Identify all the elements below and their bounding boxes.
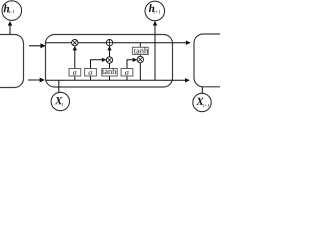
wire multiplier 3 output down to h line bbox=[139, 63, 141, 81]
LSTM cell (center rounded box) bbox=[46, 35, 173, 88]
node X_t+1 bbox=[193, 93, 211, 111]
gate sigma3 (output gate box) bbox=[121, 69, 133, 77]
wire sigma3 input down to h line bbox=[126, 76, 128, 80]
wire X_t riser into cell bbox=[58, 80, 60, 92]
wire output tanh box down into multiplier 3 bbox=[139, 55, 141, 57]
node h_t-1 bbox=[2, 1, 22, 21]
multiplier 3 (output gate product) bbox=[137, 56, 143, 62]
output tanh box (on C branch) bbox=[132, 47, 148, 54]
gate sigma2 (input gate box) bbox=[85, 69, 97, 77]
next cell (right rounded box) bbox=[194, 34, 254, 87]
wire C entry arrow (prev cell to cell left edge) bbox=[29, 45, 45, 47]
wire h riser up to h_t+1 circle bbox=[154, 21, 156, 80]
multiplier 2 (input gate product) bbox=[106, 57, 112, 63]
gate tanh (candidate box) bbox=[102, 68, 117, 76]
adder (new cell state sum on C line) bbox=[106, 40, 112, 46]
wire sigma2 input down to h line bbox=[90, 76, 92, 80]
node X_t bbox=[51, 92, 69, 110]
wire C branch down into output tanh box bbox=[139, 43, 141, 48]
wire tanh gate output up into multiplier 2 bbox=[109, 63, 111, 69]
wire tanh gate input down to h line bbox=[109, 76, 111, 80]
gate sigma1 (forget gate box) bbox=[69, 69, 81, 77]
multiplier 1 (forget gate product on C line) bbox=[72, 40, 78, 46]
wire sigma1 input down to h line bbox=[74, 76, 76, 80]
wire multiplier 2 output up into adder bbox=[109, 46, 111, 56]
wire sigma2 output elbow into multiplier 2 bbox=[91, 60, 106, 69]
node h_t+1 bbox=[145, 1, 165, 21]
wire sigma3 output elbow into multiplier 3 bbox=[127, 60, 137, 69]
previous cell (left rounded box) bbox=[0, 35, 24, 88]
wire C line (cell state, horizontal) with exit arrow bbox=[46, 42, 191, 44]
wire h line (bottom horizontal) with exit arrow bbox=[46, 79, 190, 81]
wire sigma1 output up into multiplier 1 bbox=[74, 46, 76, 68]
wire h_t-1 output arrow (from previous cell top up into circle) bbox=[9, 22, 11, 35]
wire h entry arrow (prev cell to cell left edge, lower) bbox=[28, 79, 44, 81]
wire X_t+1 riser into next cell bbox=[201, 87, 203, 94]
